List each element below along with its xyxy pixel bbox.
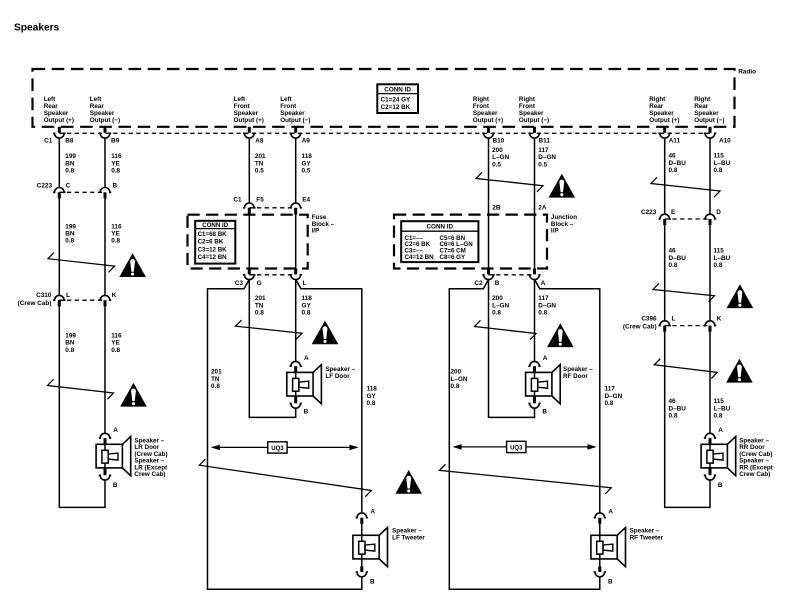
wire 117 D-GN radio to junction block <box>534 138 536 268</box>
svg-text:Right: Right <box>649 96 666 103</box>
connector C223 left (domes, stubs, dashed line) <box>53 188 65 193</box>
svg-text:B: B <box>495 280 500 287</box>
connector C310 (domes, stubs, dashed line) <box>53 295 65 300</box>
svg-text:B10: B10 <box>493 137 505 144</box>
twisted pair symbol right front tweeter pair <box>440 464 612 494</box>
fuse block - I/P (dashed component box) <box>188 215 308 269</box>
svg-text:A: A <box>608 509 613 516</box>
svg-text:0.5: 0.5 <box>302 168 311 175</box>
branch wire pin L to right vertical <box>296 280 362 289</box>
svg-text:0.8: 0.8 <box>714 413 723 420</box>
svg-text:B: B <box>542 408 547 415</box>
svg-text:0.8: 0.8 <box>538 310 547 317</box>
svg-text:0.8: 0.8 <box>669 167 678 174</box>
speaker LF Door (body, coil, cone, pins) <box>290 361 302 366</box>
svg-text:B: B <box>304 408 309 415</box>
connector C223 right (domes, stubs, dashed line) <box>659 214 671 219</box>
svg-text:Speaker: Speaker <box>473 110 498 117</box>
svg-text:L–BU: L–BU <box>714 255 731 262</box>
UQ3 option arrow right front <box>454 446 506 448</box>
svg-text:Left: Left <box>44 96 56 103</box>
speaker RF Tweeter (body, coil, cone, pins) <box>594 513 606 518</box>
svg-text:Output (−): Output (−) <box>694 117 724 124</box>
svg-text:C396: C396 <box>641 315 657 322</box>
wire 116 YE radio to C223 <box>104 138 106 187</box>
svg-text:BN: BN <box>65 231 75 238</box>
svg-text:A: A <box>543 355 548 362</box>
wire speaker LF door pin B down <box>295 408 297 417</box>
wire 46 D-BU radio to C223 <box>664 138 666 214</box>
svg-text:C2=12 BK: C2=12 BK <box>381 104 411 111</box>
svg-text:F5: F5 <box>256 196 264 203</box>
svg-text:B: B <box>370 579 375 586</box>
svg-text:Speakers: Speakers <box>14 23 60 34</box>
svg-text:Speaker: Speaker <box>90 110 115 117</box>
svg-text:D–GN: D–GN <box>538 154 556 161</box>
svg-text:A9: A9 <box>302 137 311 144</box>
svg-text:Speaker: Speaker <box>44 110 69 117</box>
svg-text:L–BU: L–BU <box>714 405 731 412</box>
svg-text:200: 200 <box>451 369 462 376</box>
twisted pair symbol left front tweeter pair <box>199 459 371 497</box>
warning triangle right front 1 <box>549 174 576 198</box>
svg-text:(Crew Cab): (Crew Cab) <box>18 300 52 307</box>
wire 116 YE C310 to speaker <box>104 306 106 434</box>
svg-text:L: L <box>303 280 307 287</box>
svg-text:A: A <box>304 355 309 362</box>
svg-text:Speaker: Speaker <box>649 110 674 117</box>
wire 200 L-GN C2 down <box>488 280 490 418</box>
radio CONN ID box <box>377 84 418 113</box>
svg-text:GY: GY <box>302 160 312 167</box>
wire 118 GY inside fuse block <box>295 215 297 269</box>
svg-text:Speaker –: Speaker – <box>325 366 355 373</box>
svg-text:C1: C1 <box>233 196 242 203</box>
svg-text:B: B <box>113 482 118 489</box>
svg-text:B8: B8 <box>65 137 74 144</box>
svg-text:TN: TN <box>255 160 264 167</box>
wire speaker LF tweeter pin B down <box>361 577 363 590</box>
twisted pair symbol right front 1 <box>476 172 543 192</box>
fuse block top connector (domes, stubs, dashed line) <box>243 203 255 208</box>
svg-text:0.8: 0.8 <box>302 310 311 317</box>
svg-text:L–GN: L–GN <box>492 154 509 161</box>
svg-text:Right: Right <box>473 96 490 103</box>
svg-text:BN: BN <box>65 160 75 167</box>
svg-text:L–GN: L–GN <box>451 376 468 383</box>
svg-text:TN: TN <box>211 376 220 383</box>
svg-text:C3: C3 <box>235 280 244 287</box>
svg-text:C1: C1 <box>44 137 53 144</box>
svg-text:46: 46 <box>669 398 677 405</box>
svg-text:0.5: 0.5 <box>492 161 501 168</box>
branch wire pin B to left vertical <box>449 280 488 289</box>
svg-text:Output (−): Output (−) <box>280 117 310 124</box>
svg-text:C2=6 BK: C2=6 BK <box>198 239 224 246</box>
svg-text:201: 201 <box>211 369 222 376</box>
svg-text:C223: C223 <box>37 182 53 189</box>
svg-text:TN: TN <box>255 302 264 309</box>
svg-text:GY: GY <box>367 393 377 400</box>
svg-text:Speaker –: Speaker – <box>630 528 660 535</box>
svg-text:115: 115 <box>714 153 725 160</box>
UQ3 option arrow left front <box>212 446 267 448</box>
svg-text:Output (−): Output (−) <box>519 117 549 124</box>
junction block - I/P (dashed component box) <box>394 215 547 269</box>
svg-text:Crew Cab): Crew Cab) <box>134 471 165 478</box>
svg-text:Radio: Radio <box>738 68 756 75</box>
twisted pair symbol right rear 3 <box>654 359 717 379</box>
svg-text:0.8: 0.8 <box>714 167 723 174</box>
svg-text:0.8: 0.8 <box>669 262 678 269</box>
radio pin B10 (stub and cup) <box>487 127 490 133</box>
radio pin B11 (stub and cup) <box>533 127 536 133</box>
branch vertical 118 GY to LF tweeter <box>361 288 363 513</box>
svg-text:116: 116 <box>111 153 122 160</box>
wire 201 TN C3 down <box>248 280 250 418</box>
svg-text:Left: Left <box>280 96 292 103</box>
svg-text:K: K <box>112 292 117 299</box>
svg-text:Rear: Rear <box>90 103 105 110</box>
svg-text:C: C <box>66 182 71 189</box>
svg-text:Right: Right <box>694 96 711 103</box>
svg-text:Speaker: Speaker <box>234 110 259 117</box>
wire 115 L-BU C396 to speaker <box>709 332 711 434</box>
svg-text:0.8: 0.8 <box>492 310 501 317</box>
wire 115 L-BU C223 to C396 <box>709 225 711 321</box>
wire right rear bottom horizontal <box>664 506 711 508</box>
svg-text:46: 46 <box>669 153 677 160</box>
svg-text:UQ3: UQ3 <box>271 446 284 452</box>
svg-text:2B: 2B <box>492 205 501 212</box>
svg-text:CONN ID: CONN ID <box>384 87 411 94</box>
wire 199 BN radio to C223 <box>58 138 60 187</box>
svg-text:115: 115 <box>714 248 725 255</box>
svg-text:UQ3: UQ3 <box>510 446 523 452</box>
svg-text:0.5: 0.5 <box>538 161 547 168</box>
svg-text:Output (−): Output (−) <box>90 117 120 124</box>
junction block CONN ID box <box>401 221 478 262</box>
svg-text:B: B <box>113 182 118 189</box>
wire 199 BN C310 down to bottom <box>58 306 60 507</box>
svg-text:RF Tweeter: RF Tweeter <box>630 535 664 542</box>
svg-text:A: A <box>718 427 723 434</box>
svg-text:Speaker: Speaker <box>694 110 719 117</box>
warning triangle left front tweeter pair <box>395 470 422 494</box>
svg-text:B9: B9 <box>111 137 120 144</box>
wire 201 TN inside fuse block <box>248 215 250 269</box>
svg-text:116: 116 <box>111 223 122 230</box>
svg-text:0.8: 0.8 <box>111 238 120 245</box>
svg-text:Speaker –: Speaker – <box>392 528 422 535</box>
connector C396 (domes, stubs, dashed line) <box>659 321 671 326</box>
radio pin B9 (stub and cup) <box>104 127 107 133</box>
svg-text:118: 118 <box>302 295 313 302</box>
warning triangle left rear 1 <box>119 253 146 277</box>
svg-text:A8: A8 <box>255 137 264 144</box>
svg-text:0.8: 0.8 <box>65 168 74 175</box>
warning triangle right rear 2 <box>727 284 754 308</box>
svg-text:K: K <box>717 315 722 322</box>
svg-text:CONN ID: CONN ID <box>427 224 454 231</box>
warning triangle right rear 3 <box>726 359 753 383</box>
svg-text:C2: C2 <box>474 280 483 287</box>
svg-text:(Crew Cab): (Crew Cab) <box>623 324 657 331</box>
wire speaker LR pin B down <box>104 480 106 507</box>
twisted pair symbol right rear 1 <box>651 177 720 197</box>
branch vertical 117 D-GN to RF tweeter <box>599 288 601 513</box>
svg-text:L–GN: L–GN <box>492 302 509 309</box>
svg-text:Output (+): Output (+) <box>44 117 74 124</box>
branch wire pin A to right vertical <box>535 280 600 289</box>
svg-text:B11: B11 <box>539 137 551 144</box>
svg-text:Left: Left <box>234 96 246 103</box>
svg-text:C310: C310 <box>36 292 52 299</box>
svg-text:C1=68 BK: C1=68 BK <box>198 231 228 238</box>
svg-text:C4=12 BN: C4=12 BN <box>198 254 228 261</box>
svg-text:C1=24 GY: C1=24 GY <box>381 97 411 104</box>
svg-text:D–BU: D–BU <box>669 255 687 262</box>
radio pin A9 (stub and cup) <box>294 127 297 133</box>
svg-text:C223: C223 <box>641 209 657 216</box>
svg-text:46: 46 <box>669 248 677 255</box>
svg-text:C8=6 GY: C8=6 GY <box>440 254 466 261</box>
svg-text:E4: E4 <box>302 196 310 203</box>
svg-text:118: 118 <box>302 153 313 160</box>
branch vertical 201 TN <box>207 288 209 589</box>
radio pin A11 (stub and cup) <box>663 127 666 133</box>
wire 117 D-GN C2 to RF door speaker <box>534 280 536 363</box>
svg-text:0.8: 0.8 <box>111 168 120 175</box>
svg-text:0.8: 0.8 <box>255 310 264 317</box>
wire 201 TN radio to fuse block <box>248 138 250 203</box>
svg-text:YE: YE <box>111 340 120 347</box>
svg-text:0.8: 0.8 <box>451 383 460 390</box>
radio (dashed component box) <box>33 69 735 127</box>
branch vertical 200 L-GN <box>448 288 450 589</box>
svg-text:GY: GY <box>302 302 312 309</box>
wire speaker RF door pin B down <box>534 408 536 417</box>
svg-text:0.8: 0.8 <box>669 413 678 420</box>
junction block bottom connector C2 (stubs, cups, dashed line) <box>487 269 490 275</box>
svg-text:E: E <box>671 209 676 216</box>
svg-text:LF Tweeter: LF Tweeter <box>392 535 425 542</box>
wire 199 BN C223 to C310 <box>58 199 60 296</box>
svg-text:0.8: 0.8 <box>111 347 120 354</box>
svg-text:C3=12 BK: C3=12 BK <box>198 246 228 253</box>
svg-text:L–BU: L–BU <box>714 160 731 167</box>
wire left front mid horizontal <box>249 416 297 418</box>
branch wire pin G to left vertical <box>208 280 250 289</box>
svg-text:0.8: 0.8 <box>65 347 74 354</box>
svg-text:0.8: 0.8 <box>714 262 723 269</box>
twisted pair symbol left rear 1 <box>48 253 115 273</box>
svg-text:Front: Front <box>473 103 490 110</box>
warning triangle left rear 2 <box>120 383 147 407</box>
svg-text:115: 115 <box>714 398 725 405</box>
svg-text:Speaker: Speaker <box>519 110 544 117</box>
svg-text:LF Door: LF Door <box>325 373 350 380</box>
svg-text:C4=12 BN: C4=12 BN <box>405 254 435 261</box>
svg-text:200: 200 <box>492 147 503 154</box>
svg-text:Rear: Rear <box>694 103 709 110</box>
svg-text:I/P: I/P <box>312 227 320 234</box>
svg-text:0.5: 0.5 <box>255 168 264 175</box>
speaker LR (body, coil, cone, pins) <box>99 433 111 438</box>
svg-text:Speaker –: Speaker – <box>563 366 593 373</box>
twisted pair symbol right rear 2 <box>653 283 715 302</box>
svg-text:117: 117 <box>538 147 549 154</box>
svg-text:CONN ID: CONN ID <box>202 222 229 229</box>
svg-text:117: 117 <box>538 295 549 302</box>
svg-text:Front: Front <box>234 103 251 110</box>
wire 46 D-BU C396 down to bottom <box>664 332 666 508</box>
svg-text:0.8: 0.8 <box>65 238 74 245</box>
svg-text:L: L <box>672 315 676 322</box>
wire speaker RF tweeter pin B down <box>599 577 601 590</box>
svg-text:Crew Cab): Crew Cab) <box>739 471 770 478</box>
wire left rear bottom horizontal <box>59 506 106 508</box>
fuse block bottom connector C3 (stubs, cups, dashed line) <box>248 269 251 275</box>
svg-text:199: 199 <box>65 223 76 230</box>
radio connector dashed line <box>59 132 710 134</box>
svg-text:D–BU: D–BU <box>669 160 687 167</box>
svg-text:199: 199 <box>65 332 76 339</box>
twisted pair symbol left front <box>236 320 303 339</box>
twisted pair symbol left rear 2 <box>48 379 114 399</box>
svg-text:Output (+): Output (+) <box>649 117 679 124</box>
svg-text:Front: Front <box>519 103 536 110</box>
svg-text:Speaker: Speaker <box>280 110 305 117</box>
svg-text:RF Door: RF Door <box>563 373 588 380</box>
svg-text:D–BU: D–BU <box>669 405 687 412</box>
wire speaker RR pin B down <box>709 480 711 507</box>
speaker LF Tweeter (body, coil, cone, pins) <box>356 513 368 518</box>
svg-text:YE: YE <box>111 231 120 238</box>
svg-text:D: D <box>716 209 721 216</box>
warning triangle right front 2 <box>547 323 574 347</box>
radio pin A8 (stub and cup) <box>248 127 251 133</box>
svg-text:0.8: 0.8 <box>605 400 614 407</box>
svg-text:Rear: Rear <box>649 103 664 110</box>
wire 118 GY C3 to LF door speaker <box>295 280 297 363</box>
speaker RR (body, coil, cone, pins) <box>704 433 716 438</box>
svg-text:0.8: 0.8 <box>211 383 220 390</box>
svg-text:Left: Left <box>90 96 102 103</box>
svg-text:Right: Right <box>519 96 536 103</box>
svg-text:A: A <box>541 280 546 287</box>
twisted pair symbol right front 2 <box>475 320 537 339</box>
fuse block CONN ID box <box>195 221 235 264</box>
wire 116 YE C223 to C310 <box>104 199 106 296</box>
svg-text:BN: BN <box>65 340 75 347</box>
svg-text:I/P: I/P <box>551 227 559 234</box>
svg-text:Rear: Rear <box>44 103 59 110</box>
svg-text:D–GN: D–GN <box>605 393 623 400</box>
svg-text:L: L <box>66 292 70 299</box>
svg-text:Output (+): Output (+) <box>473 117 503 124</box>
svg-text:A: A <box>113 427 118 434</box>
svg-text:200: 200 <box>492 295 503 302</box>
svg-text:116: 116 <box>111 332 122 339</box>
svg-text:B: B <box>608 579 613 586</box>
svg-text:Output (+): Output (+) <box>234 117 264 124</box>
svg-text:A10: A10 <box>719 137 731 144</box>
svg-text:0.8: 0.8 <box>367 400 376 407</box>
wire right front mid horizontal <box>488 416 535 418</box>
wire 115 L-BU radio to C223 <box>709 138 711 214</box>
wire 46 D-BU C223 to C396 <box>664 225 666 321</box>
wire 200 L-GN radio to junction block <box>488 138 490 268</box>
svg-text:118: 118 <box>367 386 378 393</box>
radio pin B8 (stub and cup) <box>58 127 61 133</box>
svg-text:201: 201 <box>255 153 266 160</box>
warning triangle left front <box>312 321 339 345</box>
svg-text:B: B <box>718 482 723 489</box>
svg-text:201: 201 <box>255 295 266 302</box>
svg-text:117: 117 <box>605 386 616 393</box>
svg-text:199: 199 <box>65 153 76 160</box>
radio pin A10 (stub and cup) <box>709 127 712 133</box>
svg-text:YE: YE <box>111 160 120 167</box>
svg-text:A: A <box>370 509 375 516</box>
svg-text:D–GN: D–GN <box>538 302 556 309</box>
svg-text:A11: A11 <box>669 137 681 144</box>
svg-text:2A: 2A <box>538 205 547 212</box>
svg-text:Front: Front <box>280 103 297 110</box>
svg-text:G: G <box>257 280 262 287</box>
wire left front bottom horizontal <box>207 588 363 590</box>
wire right front bottom horizontal <box>449 588 601 590</box>
speaker RF Door (body, coil, cone, pins) <box>528 361 540 366</box>
wire 118 GY radio to fuse block <box>295 138 297 203</box>
